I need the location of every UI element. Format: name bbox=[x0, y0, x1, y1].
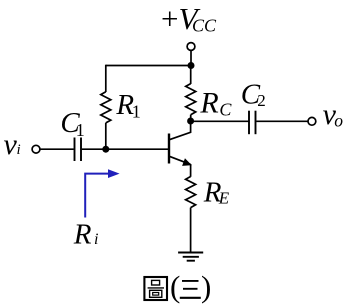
capacitor C2 bbox=[249, 111, 256, 135]
label Ri bbox=[73, 218, 99, 250]
svg-text:C: C bbox=[219, 99, 232, 119]
label vo bbox=[323, 98, 344, 131]
wire top node to RC bbox=[190, 66, 192, 85]
junction collector node bbox=[187, 118, 194, 125]
svg-text:1: 1 bbox=[132, 102, 141, 122]
transistor Q1 collector lead bbox=[169, 121, 191, 140]
transistor Q1 base bar bbox=[168, 134, 170, 164]
svg-text:2: 2 bbox=[257, 91, 266, 110]
wire collector node to C2 bbox=[191, 120, 249, 122]
label R1 bbox=[115, 89, 140, 121]
label C2 bbox=[241, 79, 266, 111]
svg-text:(: ( bbox=[170, 269, 180, 304]
svg-text:i: i bbox=[94, 231, 98, 248]
wire RE to ground bbox=[190, 208, 192, 253]
terminal vi bbox=[32, 145, 40, 153]
svg-text:o: o bbox=[334, 111, 343, 131]
svg-text:R: R bbox=[199, 87, 218, 120]
wire C2 to vo terminal bbox=[256, 120, 308, 122]
ground bbox=[178, 253, 203, 261]
svg-text:): ) bbox=[201, 269, 211, 304]
svg-text:CC: CC bbox=[192, 16, 217, 36]
resistor RE bbox=[186, 177, 196, 208]
wire vi to C1 bbox=[40, 148, 74, 150]
label RE bbox=[203, 176, 230, 208]
terminal VCC bbox=[187, 43, 195, 51]
transistor Q1 emitter lead bbox=[169, 156, 191, 164]
capacitor C1 bbox=[75, 138, 82, 162]
label +VCC bbox=[161, 1, 217, 36]
terminal vo bbox=[308, 117, 316, 125]
wire top node to R1 branch bbox=[106, 65, 191, 67]
resistor R1 bbox=[101, 92, 111, 123]
caption: parentheses and 三 bbox=[170, 269, 211, 304]
junction top node bbox=[188, 62, 195, 69]
svg-text:i: i bbox=[17, 142, 21, 158]
arrow Ri (input resistance) bbox=[85, 169, 119, 217]
wire emitter to RE bbox=[190, 164, 192, 177]
caption: character 圖 bbox=[144, 277, 167, 300]
wire VCC terminal to top node bbox=[190, 50, 192, 65]
svg-text:1: 1 bbox=[76, 120, 85, 140]
wire R1 to base node bbox=[105, 123, 107, 149]
label vi bbox=[4, 128, 21, 161]
wire RC to collector node bbox=[190, 115, 192, 121]
svg-text:R: R bbox=[73, 218, 92, 250]
svg-text:v: v bbox=[4, 128, 18, 161]
svg-text:E: E bbox=[218, 188, 230, 207]
resistor RC bbox=[186, 84, 196, 115]
wire C1 to transistor base bbox=[82, 148, 169, 150]
wire down to R1 bbox=[105, 65, 107, 92]
label C1 bbox=[60, 107, 84, 140]
label RC bbox=[199, 87, 232, 120]
junction base node bbox=[102, 146, 109, 153]
transistor Q1 emitter arrowhead bbox=[183, 159, 191, 165]
